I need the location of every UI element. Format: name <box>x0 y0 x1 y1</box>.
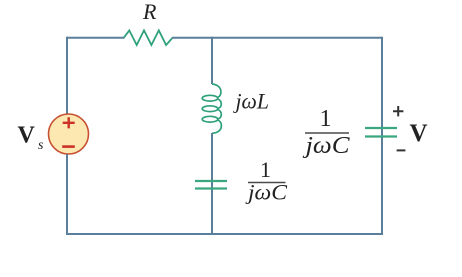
label Vs <box>18 122 45 153</box>
polarity plus (right capacitor) <box>393 106 403 116</box>
label V <box>410 120 428 147</box>
wire middle lower segment <box>211 133 213 235</box>
svg-text:V: V <box>410 120 428 147</box>
inductor L <box>202 84 221 133</box>
svg-text:V: V <box>18 122 36 148</box>
polarity minus (right capacitor) <box>397 149 406 151</box>
label 1/jωC (middle) <box>245 157 288 205</box>
svg-text:jωL: jωL <box>233 89 269 114</box>
wire left lower segment <box>66 154 68 235</box>
label R <box>142 0 157 24</box>
wire top-left segment <box>67 37 125 39</box>
wire bottom <box>66 233 383 235</box>
label 1/jωC (right) <box>302 106 350 159</box>
capacitor C2 (right branch) <box>365 128 397 137</box>
svg-text:s: s <box>38 138 44 153</box>
wire left upper segment <box>66 37 68 114</box>
wire top-right segment <box>172 37 382 39</box>
svg-text:1: 1 <box>260 157 271 182</box>
svg-text:jωC: jωC <box>302 133 350 159</box>
svg-text:1: 1 <box>320 106 332 132</box>
wire right (vertical) <box>381 37 383 235</box>
wire middle upper segment <box>211 37 213 84</box>
svg-text:jωC: jωC <box>245 180 288 205</box>
resistor R <box>124 30 173 45</box>
label jωL <box>233 89 269 114</box>
svg-text:R: R <box>142 0 157 24</box>
capacitor C1 (middle branch) <box>195 181 227 189</box>
voltage source Vs <box>49 114 89 154</box>
